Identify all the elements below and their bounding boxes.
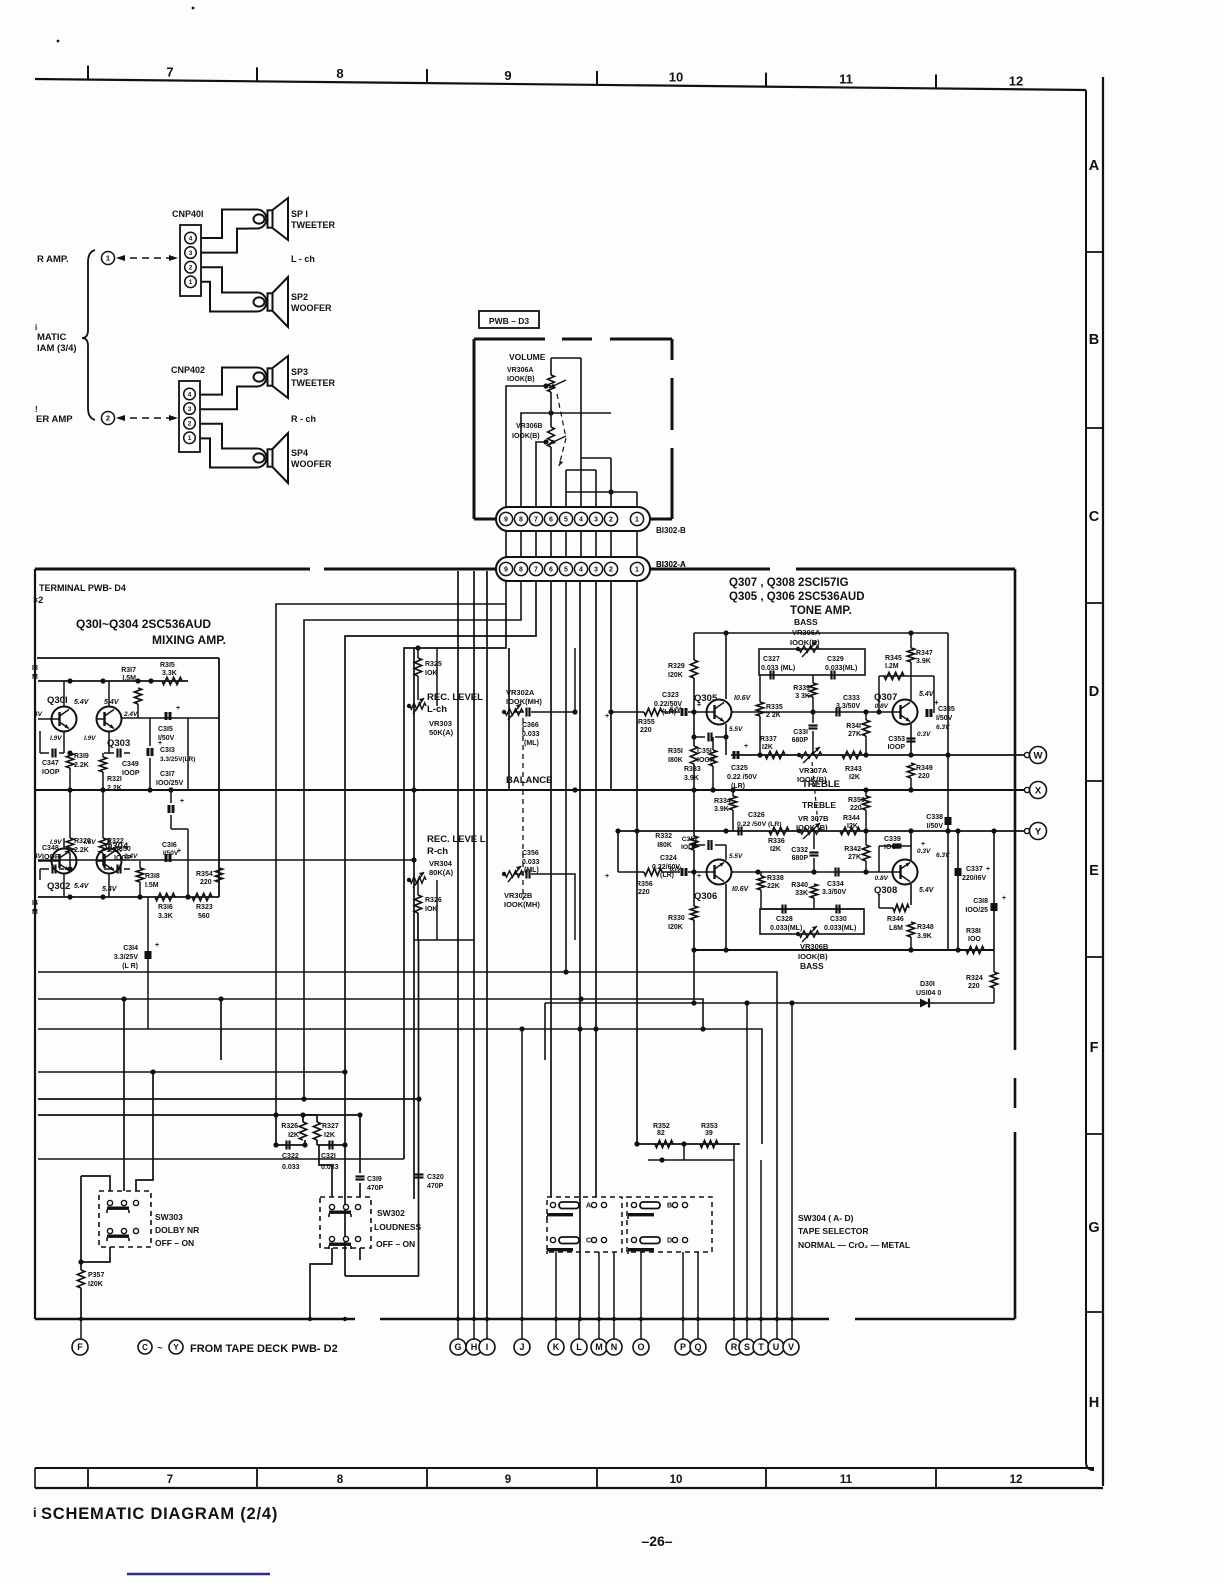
- svg-text:R32I: R32I: [107, 776, 122, 783]
- svg-text:(LR): (LR): [660, 872, 674, 879]
- svg-text:–26–: –26–: [641, 1533, 672, 1549]
- svg-text:3.9K: 3.9K: [684, 775, 699, 782]
- svg-text:OFF – ON: OFF – ON: [376, 1239, 415, 1249]
- svg-text:R335: R335: [766, 704, 783, 711]
- svg-text:5: 5: [564, 517, 568, 524]
- svg-text:BASS: BASS: [794, 617, 818, 627]
- svg-text:OFF – ON: OFF – ON: [155, 1238, 194, 1248]
- svg-text:R342: R342: [844, 846, 861, 853]
- svg-text:2: 2: [189, 265, 193, 272]
- svg-text:BALANCE: BALANCE: [506, 775, 552, 786]
- svg-text:12: 12: [1009, 73, 1023, 88]
- svg-text:2: 2: [106, 414, 110, 423]
- svg-text:0.033(ML): 0.033(ML): [825, 665, 857, 672]
- svg-text:R327: R327: [322, 1123, 339, 1130]
- svg-text:IOOK(B): IOOK(B): [798, 952, 828, 961]
- svg-text:11: 11: [839, 71, 853, 86]
- svg-text:MATIC: MATIC: [37, 332, 67, 343]
- svg-text:M: M: [32, 674, 38, 681]
- svg-text:H: H: [1089, 1395, 1099, 1411]
- svg-text:220/I6V: 220/I6V: [962, 875, 986, 882]
- svg-text:R344: R344: [843, 815, 860, 822]
- svg-text:1: 1: [106, 254, 110, 263]
- svg-text:0.22 /50V (LR): 0.22 /50V (LR): [737, 821, 782, 828]
- svg-text:I3: I3: [32, 665, 38, 672]
- svg-text:680P: 680P: [792, 855, 809, 862]
- svg-text:R34I: R34I: [846, 723, 861, 730]
- svg-text:M: M: [595, 1342, 603, 1352]
- svg-text:(L R): (L R): [122, 963, 138, 970]
- svg-text:MIXING AMP.: MIXING AMP.: [152, 633, 226, 647]
- svg-text:R353: R353: [701, 1123, 718, 1130]
- svg-text:C324: C324: [660, 855, 677, 862]
- svg-text:C3I7: C3I7: [160, 771, 175, 778]
- svg-text:3.9K: 3.9K: [714, 806, 729, 813]
- svg-text:REC. LEVEL: REC. LEVEL: [427, 692, 483, 703]
- svg-text:220: 220: [918, 773, 930, 780]
- svg-text:C339: C339: [884, 836, 901, 843]
- svg-text:R AMP.: R AMP.: [37, 254, 69, 265]
- svg-text:+: +: [1002, 895, 1006, 902]
- svg-text:7: 7: [534, 567, 538, 574]
- svg-text:+: +: [986, 866, 990, 873]
- svg-text:7: 7: [166, 64, 173, 79]
- svg-text:BASS: BASS: [800, 961, 824, 971]
- svg-text:C366: C366: [522, 722, 539, 729]
- svg-text:R332: R332: [655, 833, 672, 840]
- svg-text:Q305 , Q306 2SC536AUD: Q305 , Q306 2SC536AUD: [729, 591, 865, 603]
- svg-text:7: 7: [167, 1474, 173, 1486]
- svg-text:C3I5: C3I5: [158, 726, 173, 733]
- svg-text:M: M: [32, 909, 38, 916]
- svg-text:I80K: I80K: [657, 842, 672, 849]
- svg-text:S: S: [744, 1342, 750, 1352]
- svg-text:2: 2: [609, 517, 613, 524]
- svg-text:DOLBY NR: DOLBY NR: [155, 1225, 199, 1235]
- svg-text:9: 9: [505, 1474, 511, 1486]
- svg-text:Y: Y: [1035, 826, 1042, 837]
- svg-text:R38I: R38I: [966, 928, 981, 935]
- svg-text:G: G: [1088, 1220, 1099, 1236]
- svg-text:VR307A: VR307A: [799, 766, 828, 775]
- svg-text:C347: C347: [42, 760, 59, 767]
- svg-text:C3I9: C3I9: [367, 1176, 382, 1183]
- svg-text:D: D: [667, 1238, 672, 1245]
- svg-text:R - ch: R - ch: [291, 414, 316, 424]
- svg-text:NORMAL — CrO₂ — METAL: NORMAL — CrO₂ — METAL: [798, 1240, 910, 1250]
- svg-text:USI04 0: USI04 0: [916, 990, 941, 997]
- svg-text:R350: R350: [848, 797, 865, 804]
- svg-text:I2K: I2K: [770, 846, 781, 853]
- svg-text:2.2K: 2.2K: [74, 847, 89, 854]
- svg-text:IOOP: IOOP: [114, 855, 132, 862]
- svg-text:R329: R329: [668, 663, 685, 670]
- svg-text:C: C: [1089, 509, 1100, 525]
- svg-text:3 3K: 3 3K: [795, 693, 810, 700]
- svg-text:WOOFER: WOOFER: [291, 459, 332, 469]
- svg-text:Q: Q: [694, 1342, 701, 1352]
- svg-text:0.033: 0.033: [522, 859, 540, 866]
- svg-text:Q307 , Q308 2SCI57IG: Q307 , Q308 2SCI57IG: [729, 577, 849, 589]
- svg-text:680P: 680P: [792, 737, 809, 744]
- svg-text:R3I9: R3I9: [74, 753, 89, 760]
- svg-text:IOOK(MH): IOOK(MH): [504, 900, 540, 909]
- svg-text:L - ch: L - ch: [291, 254, 315, 264]
- svg-text:3: 3: [594, 567, 598, 574]
- svg-text:R345: R345: [885, 655, 902, 662]
- svg-text:I2K: I2K: [847, 823, 858, 830]
- svg-text:IOO/25V: IOO/25V: [156, 780, 184, 787]
- svg-text:+: +: [697, 702, 701, 709]
- svg-text:0.8V: 0.8V: [875, 875, 889, 882]
- svg-text:5.5V: 5.5V: [729, 853, 743, 860]
- svg-text:7: 7: [534, 517, 538, 524]
- svg-text:220: 220: [968, 983, 980, 990]
- svg-text:VR306A: VR306A: [507, 367, 533, 374]
- svg-text:SCHEMATIC DIAGRAM (2/4): SCHEMATIC DIAGRAM (2/4): [41, 1505, 278, 1523]
- svg-text:C333: C333: [843, 695, 860, 702]
- svg-text:0.033(ML): 0.033(ML): [770, 925, 802, 932]
- svg-text:O: O: [637, 1342, 644, 1352]
- svg-text:R3I8: R3I8: [145, 873, 160, 880]
- svg-text:V: V: [788, 1342, 794, 1352]
- svg-text:VR303: VR303: [429, 719, 452, 728]
- svg-text:R326: R326: [281, 1123, 298, 1130]
- svg-text:9: 9: [504, 68, 511, 83]
- svg-text:B: B: [667, 1203, 672, 1210]
- svg-text:TREBLE: TREBLE: [802, 779, 840, 790]
- svg-text:C320: C320: [427, 1174, 444, 1181]
- svg-text:BI302-A: BI302-A: [656, 560, 686, 569]
- svg-text:560: 560: [198, 913, 210, 920]
- svg-text:SP2: SP2: [291, 292, 308, 302]
- svg-text:IOOK(B): IOOK(B): [507, 376, 535, 383]
- svg-text:Y: Y: [173, 1343, 179, 1352]
- svg-text:R352: R352: [653, 1123, 670, 1130]
- svg-text:I.9V: I.9V: [84, 735, 96, 742]
- svg-text:T: T: [758, 1342, 764, 1352]
- svg-text:5.4V: 5.4V: [919, 887, 935, 894]
- svg-text:Q307: Q307: [874, 692, 897, 703]
- svg-text:BI302-B: BI302-B: [656, 526, 686, 535]
- svg-text:R: R: [731, 1342, 738, 1352]
- svg-text:TONE AMP.: TONE AMP.: [790, 605, 852, 617]
- svg-text:R356: R356: [636, 881, 653, 888]
- svg-text:0.033: 0.033: [282, 1164, 300, 1171]
- svg-text:I/50V: I/50V: [936, 715, 953, 722]
- svg-text:IOOK(B): IOOK(B): [512, 433, 540, 440]
- svg-text:R333: R333: [684, 766, 701, 773]
- svg-text:0.3V: 0.3V: [917, 848, 931, 855]
- svg-text:4: 4: [579, 517, 583, 524]
- svg-text:1: 1: [635, 517, 639, 524]
- svg-text:A: A: [1089, 158, 1100, 174]
- svg-text:I2K: I2K: [762, 744, 773, 751]
- svg-text:IOO: IOO: [968, 936, 981, 943]
- svg-text:3.9K: 3.9K: [916, 658, 931, 665]
- svg-text:R323: R323: [196, 904, 213, 911]
- svg-text:C325: C325: [731, 765, 748, 772]
- svg-text:C330: C330: [830, 916, 847, 923]
- svg-text:C3I8: C3I8: [973, 898, 988, 905]
- svg-text:C323: C323: [662, 692, 679, 699]
- svg-text:IAM (3/4): IAM (3/4): [37, 343, 77, 354]
- svg-text:27K: 27K: [848, 731, 861, 738]
- svg-text:i: i: [33, 1505, 37, 1520]
- svg-text:3: 3: [189, 250, 193, 257]
- svg-text:I: I: [486, 1342, 489, 1352]
- svg-text:2: 2: [188, 421, 192, 428]
- svg-text:F: F: [77, 1342, 83, 1352]
- svg-text:I20K: I20K: [88, 1281, 103, 1288]
- svg-text:+: +: [177, 848, 181, 855]
- svg-text:P357: P357: [88, 1272, 104, 1279]
- svg-text:SW303: SW303: [155, 1212, 183, 1222]
- svg-text:3.3/25V: 3.3/25V: [114, 954, 138, 961]
- svg-text:IOOP: IOOP: [884, 844, 902, 851]
- svg-text:8: 8: [337, 1474, 344, 1486]
- svg-text:I.2M: I.2M: [885, 663, 899, 670]
- svg-text:C337: C337: [966, 866, 983, 873]
- svg-text:i: i: [35, 323, 37, 332]
- svg-text:I.5M: I.5M: [122, 675, 136, 682]
- svg-text:N: N: [611, 1342, 618, 1352]
- svg-text:9: 9: [504, 567, 508, 574]
- svg-text:C3I4: C3I4: [123, 945, 138, 952]
- svg-text:IOOP: IOOP: [42, 769, 60, 776]
- svg-text:X: X: [1035, 785, 1042, 796]
- svg-text:R337: R337: [760, 736, 777, 743]
- svg-text:IOOP: IOOP: [887, 744, 905, 751]
- svg-text:TWEETER: TWEETER: [291, 378, 335, 388]
- svg-text:I/50V: I/50V: [927, 823, 944, 830]
- svg-text:39: 39: [705, 1130, 713, 1137]
- svg-text:ER AMP: ER AMP: [36, 414, 73, 425]
- svg-text:LOUDNESS: LOUDNESS: [374, 1222, 422, 1232]
- svg-text:2 2K: 2 2K: [766, 712, 781, 719]
- svg-text:IOO/25: IOO/25: [965, 907, 988, 914]
- svg-text:C332: C332: [791, 847, 808, 854]
- svg-text:+: +: [934, 698, 939, 707]
- svg-text:3.3/25V(LR): 3.3/25V(LR): [160, 756, 195, 763]
- svg-text:TERMINAL PWB- D4: TERMINAL PWB- D4: [39, 583, 126, 593]
- svg-text:C3I3: C3I3: [160, 747, 175, 754]
- svg-text:SW302: SW302: [377, 1208, 405, 1218]
- svg-text:VR304: VR304: [429, 859, 453, 868]
- svg-text:C356: C356: [522, 850, 539, 857]
- svg-text:+: +: [921, 841, 925, 848]
- svg-text:VR306B: VR306B: [516, 423, 542, 430]
- svg-text:470P: 470P: [427, 1183, 444, 1190]
- svg-text:5.4V: 5.4V: [74, 883, 90, 890]
- svg-text:VR302B: VR302B: [504, 891, 533, 900]
- svg-text:9: 9: [504, 517, 508, 524]
- svg-text:1: 1: [189, 279, 193, 286]
- svg-text:~: ~: [157, 1343, 162, 1353]
- svg-text:+: +: [180, 798, 184, 805]
- svg-text:6.IV: 6.IV: [669, 866, 681, 873]
- svg-text:A: A: [586, 1203, 591, 1210]
- svg-text:G: G: [454, 1342, 461, 1352]
- svg-text:SP4: SP4: [291, 448, 308, 458]
- svg-text:R340: R340: [791, 882, 808, 889]
- svg-text:4: 4: [189, 235, 193, 242]
- svg-text:FROM TAPE DECK PWB- D2: FROM TAPE DECK PWB- D2: [190, 1343, 338, 1355]
- svg-text:VR302A: VR302A: [506, 688, 535, 697]
- svg-text:C322: C322: [282, 1153, 299, 1160]
- svg-text:R35I: R35I: [668, 748, 683, 755]
- svg-text:SW304 ( A- D): SW304 ( A- D): [798, 1213, 854, 1223]
- svg-text:Q308: Q308: [874, 885, 897, 896]
- svg-text:+: +: [176, 705, 180, 712]
- svg-text:Q303: Q303: [107, 738, 130, 749]
- svg-text:H: H: [471, 1342, 478, 1352]
- svg-text:5.5V: 5.5V: [729, 726, 743, 733]
- svg-text:P: P: [680, 1342, 686, 1352]
- svg-text:10: 10: [669, 70, 683, 85]
- svg-text:0.033 (ML): 0.033 (ML): [761, 665, 795, 672]
- svg-text:4V: 4V: [33, 711, 43, 718]
- svg-text:R349: R349: [916, 765, 933, 772]
- svg-text:8: 8: [519, 567, 523, 574]
- svg-text:2.2K: 2.2K: [74, 762, 89, 769]
- svg-text:C3I6: C3I6: [162, 842, 177, 849]
- svg-text:0.033(ML): 0.033(ML): [824, 925, 856, 932]
- svg-text:470P: 470P: [367, 1185, 384, 1192]
- svg-text:C: C: [586, 1238, 591, 1245]
- svg-text:R3I5: R3I5: [160, 662, 175, 669]
- svg-text:Q302: Q302: [47, 881, 70, 892]
- svg-text:I80K: I80K: [668, 757, 683, 764]
- svg-text:22K: 22K: [767, 883, 780, 890]
- svg-text:5.4V: 5.4V: [74, 699, 90, 706]
- svg-text:SP I: SP I: [291, 209, 308, 219]
- svg-text:R354: R354: [196, 871, 213, 878]
- svg-text:Q30I~Q304 2SC536AUD: Q30I~Q304 2SC536AUD: [76, 617, 211, 631]
- svg-text:R324: R324: [966, 975, 983, 982]
- svg-text:IOOP: IOOP: [122, 770, 140, 777]
- svg-text:+: +: [605, 713, 609, 720]
- svg-text:1: 1: [635, 567, 639, 574]
- svg-text:0.8V: 0.8V: [875, 703, 889, 710]
- svg-text:C353: C353: [888, 736, 905, 743]
- svg-text:C: C: [142, 1343, 148, 1352]
- svg-text:82: 82: [657, 1130, 665, 1137]
- svg-text:D30I: D30I: [920, 981, 935, 988]
- svg-text:220: 220: [640, 727, 652, 734]
- svg-text:+: +: [744, 743, 748, 750]
- svg-text:I2K: I2K: [849, 774, 860, 781]
- svg-text:R325: R325: [425, 661, 442, 668]
- svg-text:5: 5: [564, 567, 568, 574]
- svg-text:TAPE SELECTOR: TAPE SELECTOR: [798, 1226, 869, 1236]
- svg-text:2: 2: [609, 567, 613, 574]
- svg-text:R338: R338: [767, 875, 784, 882]
- svg-text:I4: I4: [32, 900, 38, 907]
- svg-text:I20K: I20K: [668, 924, 683, 931]
- svg-text:50K(A): 50K(A): [429, 728, 454, 737]
- svg-text:!: !: [35, 405, 38, 414]
- svg-text:220: 220: [850, 805, 862, 812]
- svg-text:0.22 /50V: 0.22 /50V: [727, 774, 757, 781]
- svg-text:6: 6: [549, 517, 553, 524]
- svg-text:D: D: [1089, 684, 1099, 700]
- svg-text:0.3V: 0.3V: [917, 731, 931, 738]
- svg-text:U: U: [773, 1342, 780, 1352]
- svg-text:CNP402: CNP402: [171, 365, 205, 375]
- svg-text:PWB – D3: PWB – D3: [489, 316, 529, 326]
- svg-text:C348: C348: [42, 845, 59, 852]
- svg-text:I.9V: I.9V: [50, 735, 62, 742]
- svg-text:E: E: [1089, 863, 1099, 879]
- svg-text:4: 4: [579, 567, 583, 574]
- svg-text:3: 3: [188, 406, 192, 413]
- svg-text:C338: C338: [926, 814, 943, 821]
- svg-text:C33I: C33I: [793, 729, 808, 736]
- svg-text:R339: R339: [793, 685, 810, 692]
- svg-text:C335: C335: [938, 706, 955, 713]
- svg-text:I2K: I2K: [324, 1132, 335, 1139]
- svg-text:J: J: [519, 1342, 524, 1352]
- svg-text:27K: 27K: [848, 854, 861, 861]
- svg-text:6.IV: 6.IV: [669, 706, 681, 713]
- svg-text:8: 8: [519, 517, 523, 524]
- svg-text:I2K: I2K: [288, 1132, 299, 1139]
- svg-text:WOOFER: WOOFER: [291, 303, 332, 313]
- svg-text:220: 220: [200, 879, 212, 886]
- svg-text:R-ch: R-ch: [427, 846, 448, 857]
- svg-text:4: 4: [188, 391, 192, 398]
- svg-text:×2: ×2: [33, 595, 43, 605]
- svg-text:I0.6V: I0.6V: [732, 886, 750, 893]
- svg-text:0.033: 0.033: [522, 731, 540, 738]
- svg-text:R347: R347: [916, 650, 933, 657]
- svg-text:I20K: I20K: [668, 672, 683, 679]
- svg-text:+: +: [155, 942, 159, 949]
- svg-text:F: F: [1090, 1040, 1099, 1056]
- svg-text:Q306: Q306: [694, 891, 717, 902]
- svg-text:(ML): (ML): [524, 740, 539, 747]
- svg-text:W: W: [1034, 750, 1043, 761]
- svg-text:IOK: IOK: [425, 670, 437, 677]
- svg-text:2.4V: 2.4V: [123, 711, 138, 718]
- svg-text:C32I: C32I: [321, 1153, 336, 1160]
- svg-text:220: 220: [638, 889, 650, 896]
- svg-text:SP3: SP3: [291, 367, 308, 377]
- svg-text:11: 11: [840, 1474, 853, 1486]
- svg-text:R320: R320: [74, 838, 91, 845]
- svg-text:10: 10: [670, 1474, 683, 1486]
- svg-text:3.3/50V: 3.3/50V: [822, 889, 846, 896]
- svg-text:12: 12: [1010, 1474, 1023, 1486]
- svg-text:C334: C334: [827, 881, 844, 888]
- svg-text:I.5M: I.5M: [145, 882, 159, 889]
- svg-text:C350: C350: [114, 846, 131, 853]
- svg-text:C329: C329: [827, 656, 844, 663]
- svg-text:B: B: [1089, 332, 1099, 348]
- svg-text:3.9K: 3.9K: [917, 933, 932, 940]
- svg-text:C326: C326: [748, 812, 765, 819]
- svg-text:CNP40I: CNP40I: [172, 209, 204, 219]
- svg-text:R355: R355: [638, 719, 655, 726]
- svg-text:VOLUME: VOLUME: [509, 352, 546, 362]
- svg-text:R343: R343: [845, 766, 862, 773]
- svg-text:TREBLE: TREBLE: [802, 800, 836, 810]
- svg-text:5.4V: 5.4V: [104, 699, 120, 706]
- svg-text:R326: R326: [425, 897, 442, 904]
- svg-text:(ML): (ML): [524, 867, 539, 874]
- svg-text:R330: R330: [668, 915, 685, 922]
